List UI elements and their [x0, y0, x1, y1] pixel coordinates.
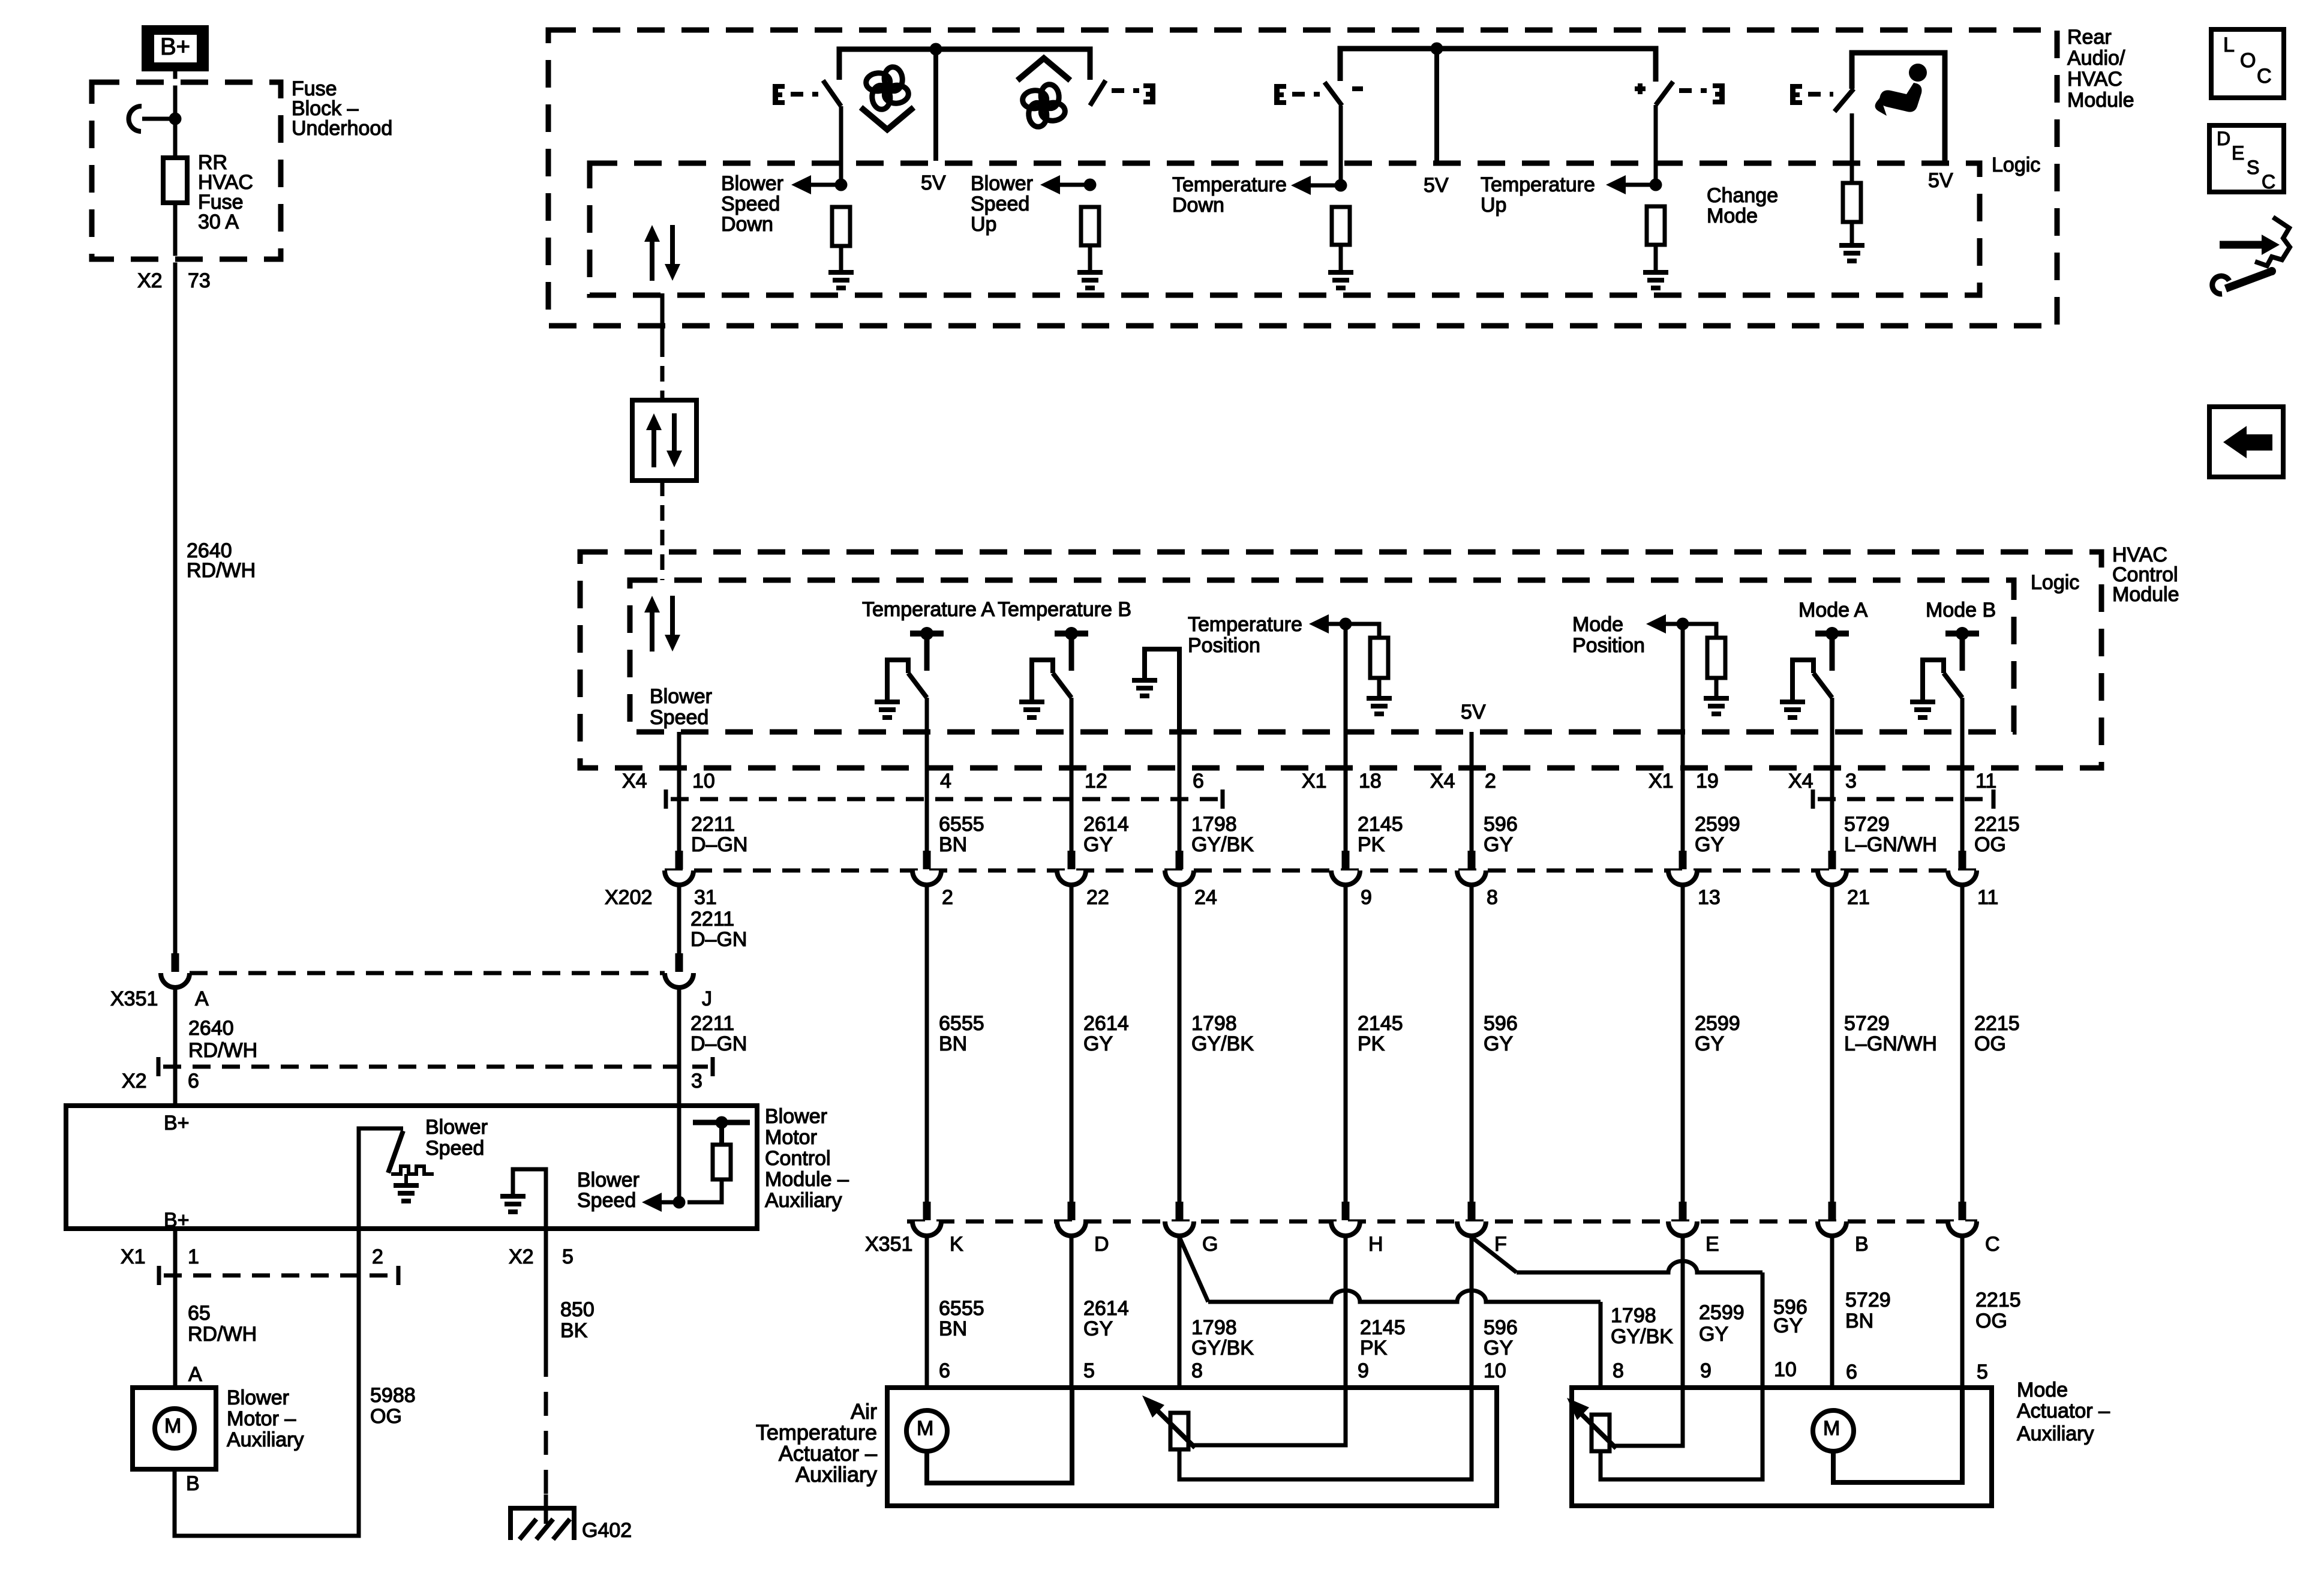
- wire blower speed 2211 D-GN (module to X202): [677, 732, 681, 851]
- svg-text:C: C: [2257, 65, 2272, 88]
- labels X351 A J: [110, 987, 712, 1010]
- wire 5729 L-GN/WH (module to X202): [1830, 698, 1834, 851]
- svg-text:6555: 6555: [939, 1012, 984, 1035]
- ground S1: [828, 270, 854, 290]
- junction dot on rail 2: [1431, 43, 1443, 55]
- svg-text:OG: OG: [1974, 833, 2006, 856]
- svg-text:9: 9: [1700, 1359, 1712, 1382]
- svg-text:X1: X1: [1649, 770, 1674, 792]
- chevron up over fan 2: [1017, 58, 1070, 80]
- label Mode Actuator - Auxiliary: [2017, 1379, 2110, 1445]
- svg-text:GY: GY: [1699, 1323, 1728, 1346]
- svg-text:Motor: Motor: [765, 1126, 817, 1149]
- dashed serial data wire lower: [660, 481, 665, 580]
- svg-text:Auxiliary: Auxiliary: [765, 1189, 842, 1212]
- Blower Motor Control Module box: [66, 1106, 757, 1229]
- wire 850 BK ground lead: [544, 1229, 548, 1353]
- dashed wire 850 BK to G402: [544, 1353, 548, 1494]
- svg-text:2614: 2614: [1083, 1297, 1129, 1320]
- svg-text:X351: X351: [865, 1233, 912, 1256]
- pull resistor temperature position: [1346, 624, 1379, 638]
- switch Temperature B: [1019, 627, 1088, 720]
- B+ battery feed symbol: [142, 25, 209, 71]
- svg-text:A: A: [195, 987, 209, 1010]
- svg-text:K: K: [950, 1233, 963, 1256]
- junction dot blower speed: [673, 1196, 686, 1209]
- air temperature actuator box: [887, 1388, 1497, 1506]
- svg-text:C: C: [1985, 1233, 2000, 1256]
- svg-text:1798: 1798: [1191, 1316, 1237, 1339]
- signal arrow temperature position: [1309, 614, 1346, 634]
- ground temperature position: [1367, 696, 1392, 716]
- svg-text:BN: BN: [939, 833, 967, 856]
- svg-text:Mode: Mode: [2017, 1379, 2068, 1401]
- svg-text:Speed: Speed: [425, 1137, 484, 1160]
- switch Mode A: [1780, 627, 1849, 720]
- svg-text:Module: Module: [2067, 89, 2134, 112]
- svg-text:BN: BN: [1845, 1310, 1873, 1332]
- rail wire 5V feed for blower switches: [839, 49, 1090, 80]
- blower speed input T-bar: [693, 1116, 750, 1145]
- svg-text:850: 850: [560, 1298, 594, 1321]
- fuse RR HVAC 30A symbol: [163, 158, 187, 203]
- wire to PWM ground: [404, 1174, 408, 1183]
- pin number labels air temp actuator: [939, 1359, 1506, 1382]
- resistor S4: [1647, 206, 1665, 245]
- connector X202 terminal at x=2453: [1457, 851, 1486, 885]
- 5V supply wire (rail 2): [1434, 49, 1439, 161]
- signal arrow mode position: [1646, 614, 1683, 634]
- svg-text:5729: 5729: [1845, 1289, 1891, 1311]
- wire 2599 GY (X202 to X351): [1681, 885, 1685, 1202]
- switch E contact S5 - change mode: [1790, 84, 1802, 105]
- svg-text:GY: GY: [1083, 1317, 1113, 1340]
- dashed serial data wire upper: [660, 341, 665, 400]
- svg-text:A: A: [188, 1363, 202, 1386]
- svg-text:M: M: [1823, 1417, 1840, 1440]
- wire 5729 L-GN/WH (X202 to X351): [1830, 885, 1834, 1202]
- svg-text:GY: GY: [1484, 1032, 1513, 1055]
- svg-text:65: 65: [188, 1302, 211, 1325]
- switch E contact S3 - temperature down: [1274, 84, 1286, 105]
- svg-text:Logic: Logic: [1992, 154, 2040, 176]
- svg-text:5V: 5V: [921, 172, 946, 194]
- svg-text:Blower: Blower: [650, 685, 712, 708]
- svg-text:22: 22: [1086, 886, 1109, 909]
- fan icon blower speed down: [865, 66, 909, 110]
- switch actuation dashes S4: [1679, 88, 1707, 93]
- svg-text:D–GN: D–GN: [690, 928, 747, 951]
- svg-text:1798: 1798: [1611, 1304, 1656, 1327]
- connector X1 row: [159, 1266, 398, 1285]
- blower motor box: [133, 1388, 216, 1469]
- svg-text:9: 9: [1358, 1359, 1369, 1382]
- svg-text:18: 18: [1359, 770, 1382, 792]
- wire 65 RD/WH module to blower motor: [173, 1229, 178, 1388]
- label Temperature Position: [1188, 613, 1302, 657]
- svg-text:X4: X4: [622, 770, 647, 792]
- svg-text:Speed: Speed: [650, 706, 708, 729]
- wire 596 GY to air temp actuator pin 10: [1470, 1236, 1474, 1388]
- wire label 2640 RD/WH below X351-A: [188, 1017, 257, 1062]
- wire 596 GY (X202 to X351): [1470, 885, 1474, 1202]
- svg-text:GY: GY: [1773, 1314, 1803, 1337]
- svg-text:Underhood: Underhood: [292, 117, 392, 140]
- svg-text:9: 9: [1361, 886, 1372, 909]
- svg-text:BK: BK: [560, 1319, 588, 1342]
- svg-text:GY: GY: [1484, 1337, 1513, 1359]
- svg-text:GY: GY: [1695, 1032, 1724, 1055]
- wire labels above air temp actuator: [939, 1297, 1518, 1359]
- signal arrow blower speed up: [1040, 175, 1090, 194]
- svg-text:5V: 5V: [1928, 169, 1953, 192]
- labels X2 6 3 row: [122, 1070, 702, 1092]
- label Blower Motor - Auxiliary: [227, 1386, 304, 1451]
- switch blade S3: [1325, 82, 1342, 106]
- labels X1 1 2 row: [121, 1245, 383, 1268]
- svg-text:Temperature: Temperature: [1188, 613, 1302, 636]
- ground S5: [1839, 243, 1864, 263]
- switch Mode B: [1910, 627, 1979, 720]
- svg-text:2: 2: [1485, 770, 1496, 792]
- wire resistor to ground (mode position): [1715, 678, 1719, 696]
- wire pin 2 PWM output inside module: [359, 1128, 403, 1229]
- wire 2614 GY (X202 to X351): [1070, 885, 1074, 1202]
- svg-text:2211: 2211: [691, 813, 735, 836]
- resistor S5: [1843, 183, 1861, 222]
- air temp potentiometer low end to pin 10: [1179, 1388, 1472, 1479]
- signal arrow blower speed into module: [642, 1193, 679, 1212]
- wire 2145 PK to air temp actuator pin 9: [1344, 1236, 1348, 1388]
- switch actuation dashes S2: [1112, 88, 1139, 93]
- air temp actuator motor loop to pin 5: [927, 1388, 1072, 1483]
- wire 1798 GY/BK to air temp actuator pin 8: [1178, 1236, 1182, 1388]
- svg-text:L: L: [2223, 34, 2235, 56]
- svg-text:B: B: [186, 1472, 200, 1495]
- svg-text:O: O: [2240, 49, 2256, 72]
- wire from S1 blade to junction: [839, 106, 843, 185]
- svg-text:S: S: [2247, 157, 2259, 178]
- wire 2211 into module to junction: [677, 1106, 681, 1202]
- svg-text:L–GN/WH: L–GN/WH: [1844, 833, 1937, 856]
- svg-text:Temperature A: Temperature A: [862, 598, 995, 621]
- svg-text:10: 10: [692, 770, 715, 792]
- svg-text:30 A: 30 A: [198, 211, 239, 233]
- svg-text:10: 10: [1774, 1358, 1797, 1381]
- signal arrow temperature down: [1291, 176, 1341, 195]
- svg-text:6: 6: [188, 1070, 199, 1092]
- wire S5 resistor to ground: [1850, 222, 1854, 243]
- svg-text:X202: X202: [605, 886, 652, 909]
- wire 596 GY 5V (module to X202): [1470, 732, 1474, 851]
- connector X351 terminal A: [161, 953, 190, 987]
- svg-text:596: 596: [1484, 1012, 1518, 1035]
- svg-text:8: 8: [1191, 1359, 1203, 1382]
- connector X202 terminal at x=2243: [1331, 851, 1360, 885]
- svg-text:D–GN: D–GN: [691, 833, 747, 856]
- ground temperature position link: [1132, 678, 1157, 698]
- connector X351 terminal K: [912, 1202, 941, 1236]
- connector X202 terminal at x=1545: [912, 851, 941, 885]
- svg-text:12: 12: [1085, 770, 1107, 792]
- junction at clip: [169, 113, 182, 125]
- label Air Temperature Actuator - Auxiliary: [756, 1399, 877, 1487]
- svg-text:1798: 1798: [1191, 813, 1237, 836]
- ground S3: [1328, 270, 1353, 290]
- svg-text:6: 6: [939, 1359, 950, 1382]
- switch blade S1: [823, 80, 841, 106]
- label Mode Position: [1572, 613, 1645, 657]
- svg-text:X4: X4: [1788, 770, 1813, 792]
- svg-text:X351: X351: [110, 987, 158, 1010]
- connector X351 A-J row dashed line: [190, 971, 665, 975]
- svg-text:Up: Up: [1481, 194, 1506, 217]
- svg-text:RD/WH: RD/WH: [188, 1323, 257, 1346]
- svg-text:PK: PK: [1360, 1337, 1388, 1359]
- label Rear Audio/HVAC Module: [2067, 26, 2134, 112]
- fuse block clip symbol: [129, 106, 175, 131]
- svg-text:2145: 2145: [1358, 1012, 1403, 1035]
- wire label 5988 OG: [370, 1384, 416, 1428]
- connector X4 bracket line pins 3-11: [1813, 789, 1993, 809]
- svg-text:Actuator –: Actuator –: [2017, 1400, 2110, 1422]
- svg-text:2614: 2614: [1083, 1012, 1129, 1035]
- svg-text:2211: 2211: [690, 1012, 734, 1035]
- svg-text:31: 31: [694, 886, 717, 909]
- wire 2640 RD/WH (X351-A to X2): [173, 987, 178, 1106]
- air temp wiper to pin 9: [1194, 1388, 1346, 1445]
- svg-text:Mode B: Mode B: [1926, 599, 1996, 622]
- junction dot S1: [835, 179, 848, 191]
- mode actuator potentiometer: [1592, 1415, 1610, 1451]
- svg-text:B: B: [1855, 1233, 1869, 1256]
- svg-text:Blower: Blower: [765, 1105, 827, 1128]
- label Temperature Down: [1172, 173, 1287, 217]
- svg-text:19: 19: [1696, 770, 1719, 792]
- mode actuator motor loop to pin 5: [1833, 1388, 1962, 1482]
- svg-text:6555: 6555: [939, 813, 984, 836]
- junction dot S2: [1084, 179, 1097, 191]
- wire labels above mode actuator: [1611, 1289, 2021, 1348]
- PWM switch blade: [388, 1131, 403, 1173]
- svg-text:HVAC: HVAC: [2067, 68, 2122, 91]
- svg-text:Temperature B: Temperature B: [998, 598, 1131, 621]
- svg-text:Speed: Speed: [971, 193, 1029, 215]
- svg-text:24: 24: [1194, 886, 1217, 909]
- svg-text:8: 8: [1487, 886, 1498, 909]
- svg-text:G: G: [1202, 1233, 1218, 1256]
- svg-text:B+: B+: [164, 1112, 190, 1134]
- connector X202 terminal at x=1132: [665, 851, 693, 885]
- label Blower Motor Control Module - Auxiliary: [765, 1105, 849, 1212]
- connector X202 terminal at x=3054: [1818, 851, 1846, 885]
- svg-text:Motor –: Motor –: [227, 1407, 296, 1430]
- wire labels between X4 and X202: [691, 813, 2020, 856]
- serial data link box with up/down arrows: [632, 400, 696, 481]
- label Blower Speed (module input): [577, 1169, 639, 1212]
- svg-text:Position: Position: [1572, 634, 1645, 657]
- seat icon: [1875, 64, 1927, 116]
- svg-text:RD/WH: RD/WH: [188, 1039, 257, 1062]
- svg-text:X2: X2: [509, 1245, 534, 1268]
- svg-text:1: 1: [188, 1245, 199, 1268]
- wire label 2211 D-GN below X202: [690, 908, 747, 951]
- resistor S3: [1332, 207, 1350, 245]
- switch actuation dashes S5: [1808, 92, 1833, 97]
- svg-text:BN: BN: [939, 1032, 967, 1055]
- svg-text:1798: 1798: [1191, 1012, 1237, 1035]
- pin letter labels X351 bottom: [950, 1233, 2000, 1256]
- wire S4 resistor to ground: [1654, 245, 1658, 270]
- wire label 2211 D-GN below X351-J: [690, 1012, 747, 1055]
- wire 2614 GY to air temp actuator pin 5: [1070, 1236, 1074, 1388]
- label Blower Speed (PWM): [425, 1116, 488, 1160]
- switch blade S2 - blower speed up: [1090, 80, 1106, 106]
- mode potentiometer low end to pin 10: [1601, 1388, 1762, 1479]
- wire S3 resistor to ground: [1339, 245, 1343, 270]
- svg-text:Temperature: Temperature: [1481, 173, 1595, 196]
- switch actuation dashes S1: [791, 92, 818, 97]
- svg-text:8: 8: [1613, 1359, 1624, 1382]
- svg-text:B+: B+: [160, 34, 190, 60]
- svg-text:D: D: [2217, 128, 2230, 149]
- svg-text:Speed: Speed: [721, 193, 780, 215]
- connector X202 terminal at x=3271: [1948, 851, 1977, 885]
- junction dot temperature position: [1340, 618, 1352, 631]
- wire blower motor B to 5988 OG: [175, 1229, 359, 1536]
- svg-text:Position: Position: [1188, 634, 1260, 657]
- switch blade S5: [1834, 89, 1854, 112]
- svg-text:2215: 2215: [1974, 813, 2020, 836]
- ground mode position: [1704, 696, 1729, 716]
- svg-text:21: 21: [1847, 886, 1870, 909]
- wire label 65 RD/WH: [188, 1302, 257, 1346]
- svg-text:RD/WH: RD/WH: [187, 559, 256, 582]
- switch Temperature A: [875, 627, 944, 720]
- svg-text:X4: X4: [1430, 770, 1455, 792]
- seat icon box change mode: [1852, 53, 1945, 163]
- wire from S3 blade to junction: [1339, 106, 1343, 185]
- connector X2 pin 73 labels: [137, 269, 211, 292]
- svg-text:2599: 2599: [1699, 1301, 1744, 1324]
- up/down arrows HVAC module: [644, 596, 680, 652]
- wire 2599 GY (module to X202): [1681, 624, 1685, 851]
- svg-text:Down: Down: [721, 213, 773, 236]
- wire S1 resistor to ground: [839, 246, 843, 270]
- switch blade S4 - temperature up: [1656, 82, 1673, 105]
- air temp actuator motor M: [906, 1410, 947, 1451]
- resistor S1: [832, 207, 850, 246]
- svg-text:H: H: [1368, 1233, 1383, 1256]
- wire 2211 D-GN (X351-J to module): [677, 987, 681, 1202]
- svg-text:M: M: [164, 1415, 181, 1437]
- minus sign S3: [1352, 86, 1363, 91]
- air temp actuator potentiometer: [1170, 1413, 1188, 1449]
- wire 596 GY branch to mode actuator pin 10: [1517, 1261, 1762, 1388]
- svg-text:D–GN: D–GN: [690, 1032, 747, 1055]
- connector X2 row (fuse feed into blower module): [158, 1057, 713, 1076]
- svg-text:Down: Down: [1172, 194, 1224, 217]
- LOC icon box: [2211, 29, 2284, 98]
- wire 5729 BN to mode actuator pin 6: [1830, 1236, 1834, 1388]
- svg-text:PK: PK: [1358, 833, 1385, 856]
- Rear Audio/HVAC Module outer dashed box: [548, 30, 2057, 326]
- pin labels X4 row: [692, 770, 1996, 792]
- svg-text:3: 3: [691, 1070, 702, 1092]
- svg-text:Up: Up: [971, 213, 996, 236]
- svg-text:GY: GY: [1695, 833, 1724, 856]
- wire 1798 GY/BK (X202 to X351): [1178, 885, 1182, 1202]
- svg-text:X2: X2: [137, 269, 163, 292]
- svg-text:5V: 5V: [1424, 174, 1449, 197]
- label Blower Speed Up: [971, 172, 1033, 236]
- wire 1798 GY/BK (module to X202): [1178, 732, 1182, 851]
- label Temperature Up: [1481, 173, 1595, 217]
- connector X351 terminal B: [1818, 1202, 1846, 1236]
- signal arrow blower speed down: [791, 175, 841, 194]
- svg-text:Auxiliary: Auxiliary: [795, 1462, 877, 1487]
- svg-text:3: 3: [1845, 770, 1857, 792]
- svg-text:73: 73: [188, 269, 211, 292]
- svg-text:B+: B+: [164, 1209, 190, 1232]
- svg-text:5729: 5729: [1844, 813, 1890, 836]
- label RR HVAC Fuse 30 A: [198, 151, 253, 233]
- svg-text:Rear: Rear: [2067, 26, 2112, 49]
- switch E contact S4 (reversed): [1713, 83, 1725, 104]
- svg-text:Speed: Speed: [577, 1189, 636, 1212]
- label Change Mode: [1707, 184, 1778, 227]
- svg-text:Logic: Logic: [2031, 571, 2079, 594]
- connector X202 terminal at x=1786: [1057, 851, 1086, 885]
- svg-text:Mode: Mode: [1707, 205, 1758, 227]
- wire 2211 D-GN (X202 to X351-J): [677, 885, 681, 953]
- svg-text:596: 596: [1484, 1316, 1518, 1339]
- resistor S2: [1081, 207, 1099, 245]
- connector X351 terminal G: [1165, 1202, 1194, 1236]
- blower motor M circle: [155, 1409, 194, 1448]
- svg-text:Blower: Blower: [971, 172, 1033, 195]
- svg-text:F: F: [1494, 1233, 1507, 1256]
- wire 2640 RD/WH from B+ down to X351-A: [173, 71, 178, 953]
- svg-text:Audio/: Audio/: [2067, 47, 2125, 70]
- svg-text:Auxiliary: Auxiliary: [2017, 1422, 2094, 1445]
- ground S4: [1643, 270, 1668, 290]
- svg-text:2215: 2215: [1974, 1012, 2020, 1035]
- svg-text:5V: 5V: [1461, 701, 1486, 724]
- svg-text:BN: BN: [939, 1317, 967, 1340]
- wire 596 GY branch diagonal: [1472, 1237, 1517, 1272]
- svg-text:5: 5: [1083, 1359, 1095, 1382]
- svg-text:2211: 2211: [690, 908, 734, 930]
- wire 2215 OG (module to X202): [1960, 698, 1965, 851]
- svg-text:5: 5: [1977, 1361, 1988, 1383]
- plus sign S4: [1635, 83, 1646, 94]
- svg-text:Blower: Blower: [577, 1169, 639, 1191]
- svg-text:Blower: Blower: [227, 1386, 289, 1409]
- ground symbol X2-5: [500, 1194, 526, 1214]
- svg-text:GY/BK: GY/BK: [1611, 1325, 1673, 1348]
- svg-text:Mode A: Mode A: [1798, 599, 1868, 622]
- connector X351 terminal F: [1457, 1202, 1486, 1236]
- wire from S4 blade to junction: [1654, 105, 1658, 185]
- pin number labels mode actuator: [1613, 1358, 1988, 1383]
- svg-text:Module: Module: [2112, 583, 2179, 606]
- svg-text:GY: GY: [1484, 833, 1513, 856]
- svg-text:GY/BK: GY/BK: [1191, 1032, 1254, 1055]
- svg-text:5: 5: [562, 1245, 574, 1268]
- svg-text:6: 6: [1193, 770, 1204, 792]
- svg-text:Blower: Blower: [425, 1116, 488, 1139]
